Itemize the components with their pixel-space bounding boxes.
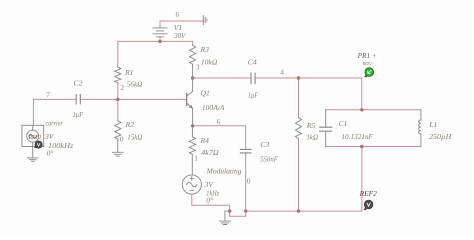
svg-text:10.1321nF: 10.1321nF	[341, 132, 373, 141]
svg-text:REF1: REF1	[28, 134, 41, 141]
svg-text:1µF: 1µF	[73, 110, 84, 119]
svg-text:550nF: 550nF	[260, 154, 278, 163]
svg-text:L1: L1	[428, 120, 437, 129]
svg-text:C3: C3	[260, 140, 269, 149]
svg-text:10kΩ: 10kΩ	[201, 57, 218, 66]
svg-text:3: 3	[196, 62, 200, 71]
svg-text:7: 7	[46, 90, 50, 99]
svg-text:0°: 0°	[206, 196, 213, 205]
svg-text:REF2: REF2	[359, 190, 378, 198]
svg-text:R1: R1	[124, 68, 133, 77]
svg-text:56kΩ: 56kΩ	[127, 80, 143, 89]
svg-text:100A/A: 100A/A	[202, 103, 225, 112]
svg-text:1µF: 1µF	[248, 90, 259, 99]
svg-text:0°: 0°	[47, 148, 54, 157]
svg-text:1: 1	[194, 154, 198, 163]
svg-text:R4: R4	[200, 136, 210, 145]
svg-text:R5: R5	[306, 121, 316, 130]
svg-text:PR1 +: PR1 +	[357, 52, 377, 60]
svg-text:Modulating: Modulating	[206, 166, 242, 175]
svg-text:1kΩ: 1kΩ	[307, 132, 319, 141]
svg-text:6: 6	[217, 117, 221, 126]
svg-text:R3: R3	[200, 45, 210, 54]
svg-text:C4: C4	[248, 58, 257, 67]
svg-text:15kΩ: 15kΩ	[127, 132, 143, 141]
svg-text:C1: C1	[339, 119, 348, 128]
svg-text:carrier: carrier	[46, 118, 63, 127]
svg-text:2: 2	[120, 83, 124, 92]
svg-text:6: 6	[176, 10, 180, 19]
svg-text:REF2 -: REF2 -	[362, 62, 375, 66]
svg-text:R2: R2	[125, 120, 135, 129]
svg-text:4: 4	[280, 68, 284, 77]
svg-text:Q1: Q1	[201, 89, 210, 98]
svg-text:4k7Ω: 4k7Ω	[201, 148, 219, 157]
svg-text:250µH: 250µH	[429, 132, 452, 141]
svg-text:0: 0	[247, 177, 251, 186]
svg-text:3V: 3V	[44, 132, 55, 141]
svg-text:30V: 30V	[173, 31, 186, 40]
svg-text:C2: C2	[74, 79, 83, 88]
svg-text:0: 0	[120, 135, 124, 144]
